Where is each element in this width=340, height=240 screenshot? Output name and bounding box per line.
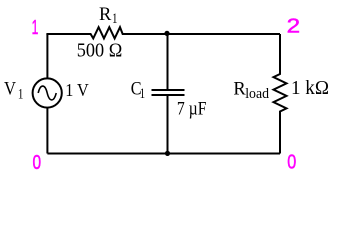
svg-text:1: 1 <box>18 86 24 102</box>
svg-text:500 Ω: 500 Ω <box>77 39 123 61</box>
svg-text:load: load <box>245 86 269 102</box>
svg-text:1 kΩ: 1 kΩ <box>291 77 329 99</box>
svg-text:7 µF: 7 µF <box>177 98 207 119</box>
svg-text:0: 0 <box>33 151 42 174</box>
svg-text:0: 0 <box>287 150 296 173</box>
svg-text:1: 1 <box>32 16 39 39</box>
svg-text:R: R <box>99 4 112 25</box>
svg-text:1: 1 <box>112 11 118 27</box>
svg-text:2: 2 <box>287 14 301 37</box>
svg-text:V: V <box>4 79 16 100</box>
svg-text:1 V: 1 V <box>65 80 89 100</box>
svg-text:R: R <box>233 79 246 100</box>
svg-text:1: 1 <box>140 86 146 102</box>
